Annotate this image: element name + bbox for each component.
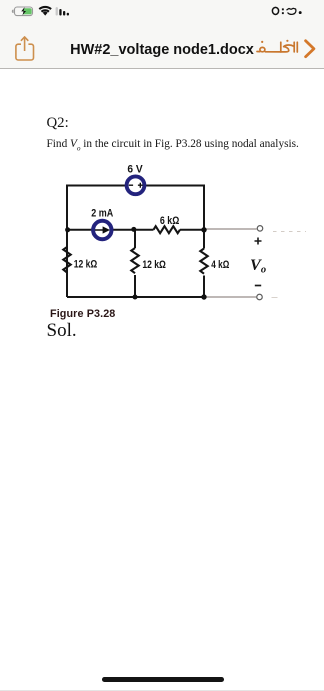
svg-text:12 kΩ: 12 kΩ (142, 259, 166, 271)
time colon (282, 8, 284, 10)
baseline connector to faa (265, 51, 281, 53)
svg-text:6 V: 6 V (127, 163, 143, 175)
share icon (16, 37, 34, 60)
svg-text:12 kΩ: 12 kΩ (74, 259, 98, 271)
arrow inside 2mA (95, 229, 103, 231)
wire middle branch upper (134, 230, 136, 248)
nav bar content (0, 30, 324, 69)
wire middle rail right of 6k resistor (180, 229, 204, 231)
alif (296, 42, 298, 52)
wire top rail (67, 185, 204, 187)
wire right branch upper (203, 230, 205, 249)
back chevron (306, 41, 314, 57)
faa dot (261, 41, 263, 43)
faa loop (260, 47, 265, 51)
svg-text:4 kΩ: 4 kΩ (211, 259, 229, 271)
circuit drawing (0, 155, 324, 320)
label plus terminal (255, 238, 262, 245)
junction dot mid-middle (131, 227, 136, 232)
wire right branch lower (203, 276, 205, 298)
open terminal Vo- (257, 294, 263, 300)
resistor 4k zigzag (200, 249, 207, 274)
svg-text:2 mA: 2 mA (91, 207, 113, 219)
svg-text:6 kΩ: 6 kΩ (160, 215, 180, 227)
khaa top bar (284, 45, 294, 47)
time 3 (arabic-indic) (287, 8, 296, 14)
wire middle rail left segment (67, 229, 154, 231)
open terminal Vo+ (257, 226, 263, 232)
junction dot right-bottom (201, 294, 206, 299)
wire right vertical of top loop (203, 185, 205, 231)
lam initial (293, 42, 295, 52)
wire middle branch lower (134, 275, 136, 297)
document text (47, 115, 69, 132)
status + nav bar background (0, 0, 324, 69)
wire to Vo- terminal (thin) (204, 296, 256, 298)
status bar icons (RTL iOS) (0, 0, 324, 30)
junction dot left-middle (65, 227, 70, 232)
junction dot mid-bottom (133, 295, 138, 300)
wire left branch lower (66, 275, 68, 297)
battery icon (charging, RTL cap on left) (12, 7, 33, 16)
current source I 2mA circle (93, 221, 111, 239)
Arabic word alkhalf (Back) drawn as paths (257, 42, 297, 52)
voltage source V 6V circle (127, 176, 145, 194)
faa tail (257, 51, 260, 53)
svg-text:Vo: Vo (250, 256, 266, 275)
wire to Vo+ terminal (thin) (204, 228, 257, 230)
wifi icon (39, 6, 52, 16)
khaa dot (286, 40, 288, 42)
faint artifact dashes (273, 231, 306, 233)
home indicator (102, 677, 224, 682)
lam medial (280, 42, 282, 52)
figure caption (50, 308, 115, 320)
junction dot right-middle (201, 227, 206, 232)
wire bottom rail (67, 296, 204, 298)
time 5 (arabic-indic) (272, 7, 278, 14)
wire left rail (66, 185, 68, 298)
resistor 6k zigzag (154, 226, 180, 233)
resistor 12k middle zigzag (131, 248, 138, 273)
cellular bars (RTL mirrored, 3/4) (56, 7, 69, 15)
plus sign inside 6V (138, 183, 143, 188)
time 0 dot (arabic-indic) (299, 11, 302, 14)
faint artifact dash bottom (272, 297, 278, 299)
label minus terminal (255, 285, 261, 287)
khaa bowl and baseline (281, 47, 289, 52)
resistor 12k left zigzag (63, 247, 70, 273)
minus sign inside 6V (129, 184, 133, 186)
